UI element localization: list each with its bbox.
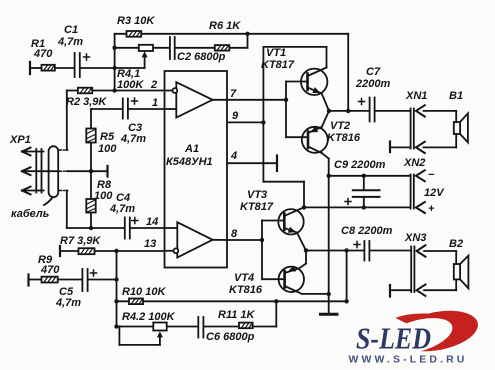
cable label bbox=[11, 198, 53, 221]
wire pin8 row bbox=[228, 228, 264, 242]
speaker B1 bbox=[449, 90, 468, 147]
svg-text:VT3: VT3 bbox=[247, 189, 267, 201]
svg-text:C6 6800p: C6 6800p bbox=[206, 331, 255, 343]
wire XP1 pin1 up-link bbox=[58, 91, 67, 151]
wire C9 top rail (minus) bbox=[327, 174, 411, 178]
svg-text:470: 470 bbox=[33, 48, 53, 60]
svg-text:KT817: KT817 bbox=[261, 59, 295, 71]
svg-text:XN2: XN2 bbox=[403, 157, 425, 169]
wire pin1 row bbox=[91, 108, 165, 110]
svg-text:WWW.S-LED.RU: WWW.S-LED.RU bbox=[349, 355, 468, 366]
capacitor C5 bbox=[55, 269, 97, 309]
svg-text:KT816: KT816 bbox=[327, 132, 361, 144]
wire bases vertical top pair bbox=[286, 82, 308, 138]
connector XP1 bbox=[9, 134, 58, 197]
wire C9 bottom rail (plus) bbox=[302, 205, 411, 209]
op-amp U1 box bbox=[165, 71, 228, 268]
svg-text:100: 100 bbox=[94, 190, 113, 202]
svg-text:12V: 12V bbox=[424, 187, 445, 199]
node feedback vertical left (inverting input node) bbox=[112, 34, 116, 93]
transistor VT4 bbox=[229, 251, 329, 297]
wire feedback vertical to output node bbox=[347, 34, 349, 111]
svg-text:470: 470 bbox=[40, 264, 60, 276]
capacitor C4 bbox=[109, 192, 138, 239]
resistor R11 bbox=[218, 309, 256, 328]
connector XN3 bbox=[390, 232, 456, 297]
svg-text:C2 6800p: C2 6800p bbox=[177, 51, 226, 63]
wire pin13 row bbox=[60, 246, 165, 256]
svg-text:R11 1K: R11 1K bbox=[218, 309, 256, 321]
svg-text:R4.2 100K: R4.2 100K bbox=[122, 311, 176, 323]
svg-text:KT816: KT816 bbox=[229, 284, 263, 296]
wire middle rail from XP1 bbox=[58, 166, 107, 177]
resistor R8 bbox=[86, 179, 113, 213]
transistor VT1 bbox=[261, 47, 329, 111]
capacitor C6 bbox=[198, 317, 254, 343]
capacitor C1 bbox=[57, 24, 90, 77]
svg-text:14: 14 bbox=[146, 216, 158, 228]
resistor R3 bbox=[117, 15, 155, 37]
S-LED logo bbox=[349, 311, 478, 366]
wire bases vertical bottom pair bbox=[262, 221, 285, 280]
wire input row top (R1-C1 row) bbox=[30, 62, 145, 74]
wire pin2 row bbox=[67, 90, 165, 92]
svg-text:4,7m: 4,7m bbox=[55, 297, 81, 309]
transistor VT2 bbox=[302, 111, 361, 153]
svg-text:KT817: KT817 bbox=[240, 201, 274, 213]
resistor R7 bbox=[60, 235, 101, 254]
resistor R2 bbox=[66, 88, 107, 108]
svg-text:XP1: XP1 bbox=[9, 134, 31, 146]
svg-text:1: 1 bbox=[152, 97, 158, 109]
capacitor C8 bbox=[341, 225, 393, 261]
svg-text:4: 4 bbox=[230, 150, 237, 162]
svg-text:R10 10K: R10 10K bbox=[122, 286, 166, 298]
capacitor C7 bbox=[355, 66, 390, 122]
wire output node row 1 (to C7) bbox=[327, 109, 411, 113]
svg-text:A1: A1 bbox=[184, 143, 199, 155]
svg-text:C7: C7 bbox=[366, 66, 381, 78]
svg-text:C1: C1 bbox=[64, 24, 78, 36]
potentiometer R4.2 bbox=[119, 311, 175, 345]
resistor R6 bbox=[209, 20, 241, 51]
svg-text:−: − bbox=[428, 169, 435, 181]
ground bbox=[321, 313, 338, 316]
wire pin4 stub bbox=[227, 150, 277, 171]
svg-text:VT4: VT4 bbox=[234, 272, 254, 284]
capacitor C9 bbox=[334, 159, 386, 208]
op-amp A1.2 triangle bbox=[144, 216, 228, 258]
svg-text:кабель: кабель bbox=[11, 208, 49, 220]
wire R3 feedback row bbox=[115, 32, 349, 36]
speaker B2 bbox=[449, 238, 468, 290]
svg-text:C9 2200m: C9 2200m bbox=[334, 159, 386, 171]
svg-text:R6 1K: R6 1K bbox=[209, 20, 241, 32]
svg-text:B1: B1 bbox=[449, 90, 463, 102]
wire R10 feedback row bbox=[117, 299, 349, 303]
svg-text:2200m: 2200m bbox=[355, 78, 390, 90]
wire pin7 row bbox=[227, 88, 288, 102]
svg-text:VT2: VT2 bbox=[330, 120, 350, 132]
op-amp A1.1 triangle bbox=[150, 79, 227, 118]
resistor R10 bbox=[122, 286, 166, 304]
wire pin9 row bbox=[227, 110, 266, 125]
capacitor C2 bbox=[170, 37, 226, 63]
transistor VT3 bbox=[240, 189, 306, 251]
wire pin14 row bbox=[58, 191, 164, 229]
connector XN2 12V bbox=[403, 157, 445, 215]
svg-text:100: 100 bbox=[98, 143, 117, 155]
wire output node row 2 (to C8) bbox=[304, 248, 411, 301]
resistor R1 bbox=[31, 38, 55, 71]
svg-text:S-LED: S-LED bbox=[356, 321, 431, 356]
wire R9/C5 row bbox=[29, 275, 117, 286]
svg-text:8: 8 bbox=[231, 228, 238, 240]
svg-text:R5: R5 bbox=[100, 131, 115, 143]
svg-text:9: 9 bbox=[232, 110, 239, 122]
wire R4.1/C2/R6 row bbox=[115, 34, 248, 48]
wire left feedback vertical (bottom channel) bbox=[114, 251, 118, 329]
svg-text:R2 3,9K: R2 3,9K bbox=[66, 96, 107, 108]
svg-text:B2: B2 bbox=[449, 238, 463, 250]
svg-text:4,7m: 4,7m bbox=[109, 203, 135, 215]
wire R4.2/C6/R11 row bbox=[117, 301, 277, 326]
resistor R9 bbox=[38, 254, 60, 283]
svg-text:C8 2200m: C8 2200m bbox=[341, 225, 393, 237]
connector XN1 bbox=[390, 90, 456, 153]
svg-text:+: + bbox=[428, 203, 435, 215]
svg-text:К548УН1: К548УН1 bbox=[166, 156, 213, 168]
wire +V collector rail bbox=[263, 47, 326, 207]
svg-text:R3 10K: R3 10K bbox=[117, 15, 155, 27]
svg-text:VT1: VT1 bbox=[266, 47, 286, 59]
svg-text:4,7m: 4,7m bbox=[57, 36, 83, 48]
capacitor C3 bbox=[120, 98, 146, 145]
svg-text:R7 3,9K: R7 3,9K bbox=[60, 235, 101, 247]
svg-text:4,7m: 4,7m bbox=[120, 133, 146, 145]
potentiometer R4.1 bbox=[117, 45, 153, 91]
svg-text:7: 7 bbox=[230, 88, 237, 100]
svg-text:100K: 100K bbox=[117, 79, 144, 91]
svg-text:2: 2 bbox=[150, 79, 157, 91]
svg-text:XN1: XN1 bbox=[405, 90, 427, 102]
wire R5/R8 chain vertical bbox=[89, 109, 93, 230]
wire +V rail vertical to ground symbol column bbox=[322, 153, 331, 314]
svg-text:13: 13 bbox=[144, 238, 156, 250]
svg-text:XN3: XN3 bbox=[404, 232, 426, 244]
resistor R5 bbox=[86, 129, 117, 156]
